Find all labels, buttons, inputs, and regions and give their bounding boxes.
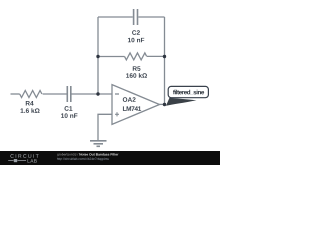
node flag filtered_sine text [173,90,204,95]
wire feedback R5 left lead [98,56,125,58]
node junction dot (feedback left) [96,55,99,58]
resistor R5 label [133,66,141,71]
capacitor C2 value label [128,38,144,43]
resistor R4 value label [21,108,40,113]
node junction dot (output) [163,103,166,106]
watermark banner [0,151,220,165]
watermark line 1 user [57,153,78,156]
resistor R4 label [26,101,34,105]
resistor R4 [20,91,42,98]
wire C1 to inverting node [72,93,113,95]
op-amp minus pin mark [115,93,119,95]
wire op-amp output [160,103,166,105]
op-amp plus pin mark [115,112,119,116]
watermark logo CIRCUIT [10,154,38,158]
wire right vertical (output to feedback) [164,17,166,105]
ground [90,141,107,147]
watermark logo chip icon square [14,159,17,162]
capacitor C2 [134,9,138,25]
node flag filtered_sine box [168,86,208,97]
op-amp OA2 triangle [112,85,160,125]
capacitor C1 [67,86,71,102]
flag tail (filtered_sine pointer) [166,98,197,106]
watermark line 1 title [79,153,118,155]
wire R4 to C1 [43,93,67,95]
resistor R5 [125,53,147,60]
resistor R5 value label [126,73,147,78]
capacitor C1 label [65,106,73,111]
capacitor C1 value label [61,113,77,118]
wire non-inverting input [98,114,112,140]
node junction dot (feedback right) [163,55,166,58]
wire left vertical (feedback) [97,17,99,94]
capacitor C2 label [132,30,140,35]
op-amp LM741 model label [123,106,141,110]
wire top left segment to C2 [98,16,133,18]
watermark logo LAB text [28,159,37,162]
watermark line 2 url [57,158,109,161]
op-amp OA2 name label [123,97,136,102]
wire C2 to right vertical [138,16,164,18]
wire feedback R5 right lead [147,55,165,57]
wire input left lead [11,93,20,95]
watermark logo chip icon line [8,160,26,162]
node junction dot (inverting input) [96,92,99,95]
